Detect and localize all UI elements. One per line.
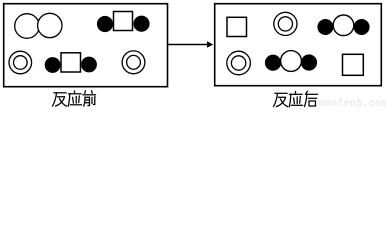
molecule: black-square-black (top-right of left box) (97, 12, 150, 33)
atom: double circle (bottom-left of right box) (227, 51, 251, 75)
molecule: black-white-black (top-right of right box) (317, 15, 369, 36)
char 前 (84, 91, 87, 93)
left box (before reaction) (4, 4, 168, 87)
right box (after reaction) (215, 4, 382, 86)
char 后 (306, 91, 308, 93)
molecule: black-square-black (bottom-middle of left box) (45, 53, 97, 73)
molecule: white square (top-left of right box) (227, 17, 247, 36)
label: 反应前 (vector strokes) (53, 91, 96, 106)
char 反 (54, 92, 66, 94)
molecule: white square (bottom-right of right box) (343, 54, 364, 75)
molecule: white diatomic (top-left of left box) (15, 13, 62, 38)
char 应 (74, 91, 76, 93)
char 应 (295, 92, 297, 94)
svg-text:manfen5.com: manfen5.com (319, 98, 386, 108)
atom: double circle (bottom-right of left box) (122, 51, 145, 74)
arrow between boxes (168, 41, 213, 48)
atom: double circle (top-middle of right box) (274, 12, 297, 35)
molecule: black-white-black (bottom-middle of right box) (265, 51, 317, 72)
label: 反应后 (vector strokes) (274, 91, 318, 106)
atom: double circle (bottom-left of left box) (9, 51, 32, 74)
char 反 (275, 92, 287, 94)
